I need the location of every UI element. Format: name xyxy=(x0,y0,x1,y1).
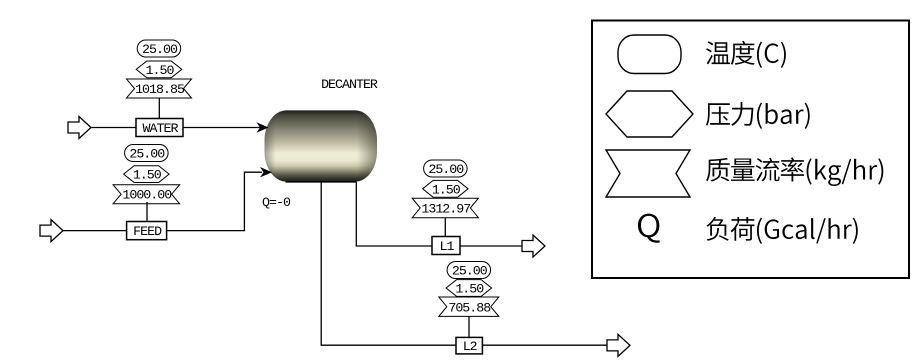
wire WATER inlet segment xyxy=(91,127,136,129)
pressure hexagon L2 1.50 xyxy=(446,280,492,297)
stream WATER feed arrow symbol xyxy=(68,117,91,139)
stream name box WATER xyxy=(136,119,183,137)
wire FEED to decanter (right, up, right) xyxy=(167,172,262,230)
wire L2 to outlet xyxy=(482,344,607,346)
stream L1 product arrow symbol xyxy=(522,235,545,257)
svg-text:1000.00: 1000.00 xyxy=(122,188,172,203)
legend label pressure 压力(bar) xyxy=(706,102,810,129)
mass flow banner WATER 1018.85 xyxy=(127,79,192,98)
wire WATER label stem xyxy=(158,98,160,119)
wire L2 label stem xyxy=(468,316,470,337)
legend box xyxy=(592,21,909,279)
pressure hexagon WATER 1.50 xyxy=(136,61,182,78)
svg-text:L2: L2 xyxy=(463,339,478,354)
wire L1 from decanter bottom xyxy=(356,182,432,246)
stream FEED feed arrow symbol xyxy=(40,220,63,242)
legend temperature oval xyxy=(618,35,681,74)
mass flow banner L1 1312.97 xyxy=(412,198,478,218)
legend label duty 负荷(Gcal/hr) xyxy=(707,217,858,244)
svg-text:25.00: 25.00 xyxy=(428,162,464,177)
temperature oval L1 25.00 xyxy=(424,160,468,177)
svg-text:1.50: 1.50 xyxy=(133,168,162,183)
svg-text:25.00: 25.00 xyxy=(129,147,165,162)
svg-text:L1: L1 xyxy=(440,239,455,254)
pressure hexagon FEED 1.50 xyxy=(124,166,170,183)
temperature oval WATER 25.00 xyxy=(137,40,181,57)
temperature oval FEED 25.00 xyxy=(125,145,169,162)
wire L1 label stem xyxy=(444,218,446,237)
svg-text:1.50: 1.50 xyxy=(432,182,461,197)
svg-text:1.50: 1.50 xyxy=(146,63,175,78)
temperature oval L2 25.00 xyxy=(447,262,491,279)
svg-text:WATER: WATER xyxy=(143,121,179,136)
legend Q symbol xyxy=(638,214,660,243)
mass flow banner L2 705.88 xyxy=(439,297,499,316)
svg-text:705.88: 705.88 xyxy=(448,300,491,315)
svg-text:1018.85: 1018.85 xyxy=(135,82,185,97)
svg-text:1312.97: 1312.97 xyxy=(421,202,470,217)
wire WATER to decanter xyxy=(183,127,262,129)
stream name box FEED xyxy=(127,222,167,240)
arrowhead WATER into decanter xyxy=(257,122,269,132)
legend pressure hexagon xyxy=(606,91,693,137)
stream name box L2 xyxy=(456,337,482,354)
decanter vessel B1 xyxy=(265,110,378,181)
legend label temperature 温度(C) xyxy=(706,41,786,68)
svg-text:Q=-0: Q=-0 xyxy=(262,195,291,210)
wire L2 from decanter bottom xyxy=(321,182,456,345)
wire FEED label stem xyxy=(146,202,148,222)
legend label mass flow 质量流率(kg/hr) xyxy=(706,158,883,187)
arrowhead FEED into decanter xyxy=(260,167,272,177)
svg-text:FEED: FEED xyxy=(133,224,162,239)
svg-text:25.00: 25.00 xyxy=(452,264,488,279)
pressure hexagon L1 1.50 xyxy=(423,180,469,197)
svg-text:25.00: 25.00 xyxy=(142,42,178,57)
wire L1 to outlet xyxy=(460,245,522,247)
stream name box L1 xyxy=(432,237,460,255)
svg-text:DECANTER: DECANTER xyxy=(321,77,378,92)
svg-text:1.50: 1.50 xyxy=(455,282,484,297)
stream L2 product arrow symbol xyxy=(607,334,630,356)
wire FEED inlet segment xyxy=(63,230,127,232)
legend mass flow banner xyxy=(606,150,690,197)
mass flow banner FEED 1000.00 xyxy=(113,185,180,204)
